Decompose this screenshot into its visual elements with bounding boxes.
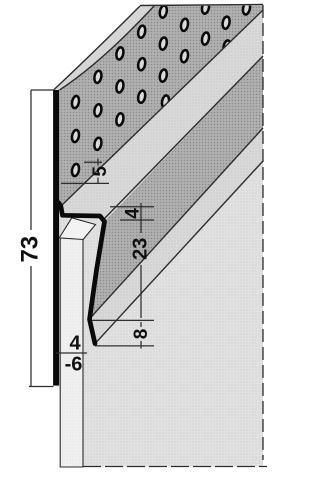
svg-text:4: 4 xyxy=(69,333,81,355)
svg-text:4: 4 xyxy=(123,208,144,219)
svg-text:23: 23 xyxy=(130,238,152,260)
svg-text:5: 5 xyxy=(90,166,111,177)
svg-text:-6: -6 xyxy=(65,354,83,376)
svg-text:8: 8 xyxy=(131,329,152,340)
svg-text:73: 73 xyxy=(17,236,44,263)
